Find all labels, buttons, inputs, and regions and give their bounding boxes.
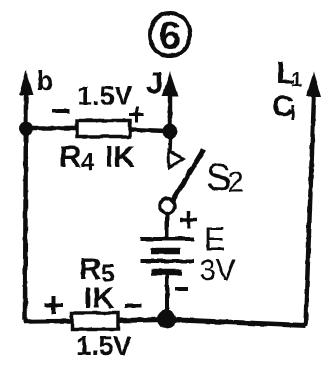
svg-text:6: 6 bbox=[159, 14, 181, 58]
svg-text:1.5V: 1.5V bbox=[77, 81, 133, 111]
svg-text:IK: IK bbox=[84, 282, 114, 315]
svg-text:2: 2 bbox=[227, 166, 244, 199]
svg-text:3V: 3V bbox=[199, 254, 236, 287]
svg-text:b: b bbox=[37, 66, 54, 96]
svg-text:IK: IK bbox=[105, 141, 135, 174]
svg-text:l: l bbox=[290, 103, 296, 125]
svg-text:1.5V: 1.5V bbox=[76, 331, 132, 361]
svg-text:J: J bbox=[146, 65, 163, 100]
svg-text:4: 4 bbox=[81, 149, 95, 176]
svg-text:R: R bbox=[79, 251, 101, 286]
svg-text:1: 1 bbox=[291, 69, 302, 91]
svg-text:R: R bbox=[59, 139, 81, 174]
svg-text:E: E bbox=[204, 221, 225, 257]
